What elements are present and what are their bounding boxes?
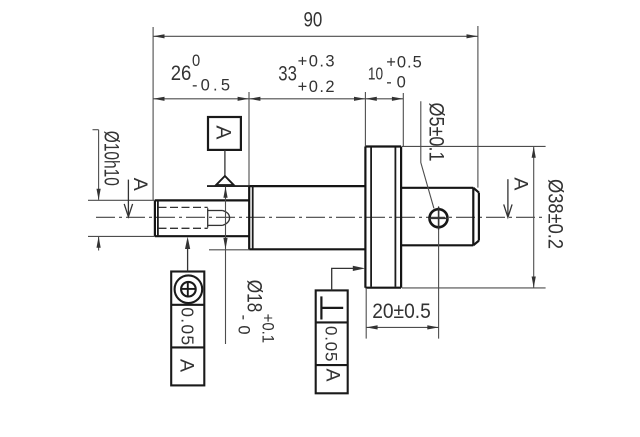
svg-text:+0.5: +0.5 xyxy=(386,53,422,71)
svg-text:-0: -0 xyxy=(386,74,406,92)
dim Ø10h10 xyxy=(88,199,155,201)
svg-text:+0.1: +0.1 xyxy=(259,314,277,344)
svg-text:+0.3: +0.3 xyxy=(298,53,335,71)
svg-text:A: A xyxy=(212,125,235,139)
datum base line (top edge extension) xyxy=(207,185,249,187)
svg-text:0.05: 0.05 xyxy=(177,307,197,345)
svg-text:A: A xyxy=(509,177,531,190)
datum stem and triangle xyxy=(224,150,226,176)
perpendicularity symbol xyxy=(320,296,322,319)
svg-text:10: 10 xyxy=(368,63,383,83)
svg-text:Ø5±0.1: Ø5±0.1 xyxy=(424,103,447,162)
svg-text:A: A xyxy=(321,369,343,382)
svg-text:A: A xyxy=(176,359,198,372)
cross hole circle xyxy=(430,209,448,227)
dim 20±0.5 xyxy=(365,289,367,339)
dim Ø5±0.1 leader xyxy=(421,101,434,208)
dim row 26 / 33 / 10 xyxy=(248,92,250,186)
middle section chamfer line xyxy=(252,186,254,249)
svg-text:A: A xyxy=(129,178,151,191)
svg-text:0: 0 xyxy=(192,52,200,70)
centerline axis xyxy=(96,216,546,218)
svg-text:0.05: 0.05 xyxy=(322,326,341,362)
FCF perpendicularity frame xyxy=(316,290,348,393)
section arrow A left xyxy=(127,180,129,215)
dim 90 xyxy=(152,27,154,200)
wire right section outline xyxy=(401,188,479,246)
svg-text:Ø18: Ø18 xyxy=(243,280,266,313)
svg-text:20±0.5: 20±0.5 xyxy=(372,300,431,323)
wire middle section outline xyxy=(249,186,365,249)
center hole xyxy=(208,208,230,227)
dim Ø38±0.2 xyxy=(402,145,546,147)
svg-text:33: 33 xyxy=(278,62,297,85)
small shaft chamfer line xyxy=(157,200,159,236)
wire flange outline xyxy=(365,147,401,288)
FCF concentricity frame xyxy=(171,272,204,386)
section arrow A right xyxy=(507,179,509,215)
datum A box xyxy=(208,117,241,150)
hole vertical centerline / extension of 20 dim xyxy=(438,206,440,338)
svg-text:-0: -0 xyxy=(235,315,253,335)
svg-text:Ø38±0.2: Ø38±0.2 xyxy=(544,179,567,249)
thread dashed lines xyxy=(159,207,208,228)
dim Ø18 xyxy=(209,249,249,251)
svg-text:90: 90 xyxy=(304,9,323,32)
svg-text:+0.2: +0.2 xyxy=(298,78,335,96)
FCF concentricity leader xyxy=(187,249,189,272)
flange chamfer lines xyxy=(370,148,372,287)
svg-text:26: 26 xyxy=(171,62,192,85)
FCF perpendicularity leader xyxy=(332,268,354,290)
wire small shaft outline xyxy=(155,200,249,236)
svg-text:Ø10h10: Ø10h10 xyxy=(100,131,123,186)
